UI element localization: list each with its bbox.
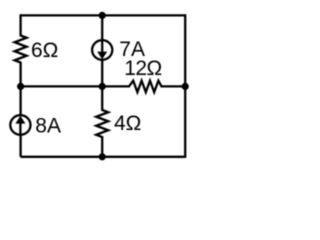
svg-text:6Ω: 6Ω xyxy=(31,39,58,62)
svg-text:4Ω: 4Ω xyxy=(114,112,141,135)
svg-text:12Ω: 12Ω xyxy=(124,57,162,80)
svg-text:8A: 8A xyxy=(35,115,61,138)
